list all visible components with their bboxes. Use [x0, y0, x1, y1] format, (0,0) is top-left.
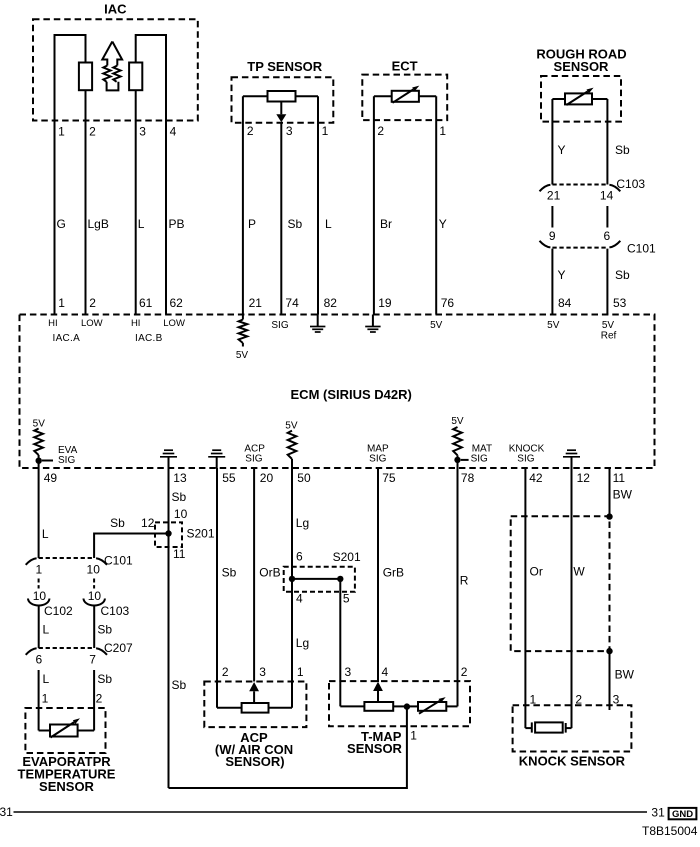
wire segment C103-14 to C101-6	[606, 206, 608, 228]
Rough road sensor title	[536, 46, 626, 74]
svg-text:Lg: Lg	[296, 516, 309, 530]
T-MAP title	[347, 729, 403, 756]
wire G label	[57, 217, 66, 231]
svg-text:Sb: Sb	[288, 217, 303, 231]
ECM title	[291, 387, 412, 402]
wire PB label	[169, 217, 185, 231]
svg-text:5V: 5V	[236, 350, 249, 361]
S201 label (right)	[333, 550, 361, 564]
svg-text:C101: C101	[104, 554, 133, 568]
ECM ground (pin 13)	[160, 450, 177, 468]
C207 label	[104, 641, 133, 655]
svg-text:SIG: SIG	[271, 320, 288, 331]
ECM 5V label (EVA pull-up)	[33, 419, 46, 430]
svg-text:31: 31	[651, 805, 665, 819]
TP wiper arrow	[276, 102, 286, 123]
ECM ground (pin 82)	[310, 315, 325, 333]
wire Sb (S201 11 to ACP area)	[168, 534, 170, 789]
wire P label	[248, 217, 256, 231]
svg-text:5V: 5V	[451, 416, 464, 427]
svg-text:4: 4	[170, 125, 177, 139]
MAT SIG junction dot	[454, 457, 460, 463]
wire BW (ECM 11 to shield)	[609, 468, 611, 517]
wire Y (RRS to C103 21)	[551, 99, 553, 185]
T-MAP wiper arrow (pin 4)	[373, 682, 383, 702]
TP sensor title	[247, 59, 323, 74]
C101 pin 6 label	[604, 229, 611, 243]
svg-text:31: 31	[0, 805, 13, 819]
wire (T-MAP 1 ground run)	[169, 706, 407, 788]
svg-text:Lg: Lg	[296, 636, 309, 650]
svg-text:4: 4	[382, 665, 389, 679]
svg-text:HI: HI	[48, 318, 58, 329]
S201 jumper wire	[292, 578, 340, 580]
S201 pin 11 label	[173, 547, 186, 561]
svg-text:Sb: Sb	[97, 672, 112, 686]
ECM IAC.A label	[52, 333, 80, 344]
wire Sb label	[97, 623, 112, 637]
TP pin 1 label	[322, 124, 329, 138]
wire L (ECM 49 to C101 1)	[38, 468, 40, 558]
ACP pin 3 label	[259, 665, 266, 679]
wire GrB label	[383, 566, 404, 580]
connector C207	[26, 648, 107, 655]
ECT pin 2 label	[377, 124, 384, 138]
ECM SIG label (pin 74)	[271, 320, 288, 331]
ECT title	[392, 58, 418, 73]
svg-text:Y: Y	[558, 268, 566, 282]
svg-text:LOW: LOW	[81, 318, 103, 329]
wire L label	[138, 217, 145, 231]
connector C103 terminal	[84, 599, 105, 606]
EVA SIG tick and label	[42, 445, 78, 466]
svg-text:L: L	[325, 217, 332, 231]
svg-text:75: 75	[382, 471, 396, 485]
svg-text:PB: PB	[169, 217, 185, 231]
ECM pin 76 label	[441, 296, 455, 310]
ECM pin 42 label	[529, 471, 543, 485]
svg-text:ECM (SIRIUS D42R): ECM (SIRIUS D42R)	[291, 387, 412, 402]
svg-text:SIG: SIG	[58, 455, 75, 466]
wire Lg label	[296, 636, 309, 650]
C101 label (left)	[104, 554, 133, 568]
S201 junction dot (pin 4)	[289, 576, 295, 582]
ECM pin 78 label	[461, 471, 475, 485]
ECM HI label (pin 1)	[48, 318, 58, 329]
wire Y label	[439, 217, 447, 231]
IAC coil B (pins 3-4)	[129, 35, 166, 121]
svg-text:S201: S201	[187, 527, 215, 541]
ECM pin 82 label	[324, 296, 338, 310]
svg-text:1: 1	[42, 692, 49, 706]
wire OrB label	[259, 566, 280, 580]
wire Sb (C101 6 to ECM 53)	[606, 249, 608, 315]
svg-text:21: 21	[547, 188, 561, 202]
ECM pin 55 label	[222, 471, 236, 485]
C101 pin 1 label	[36, 563, 43, 577]
Evaporator temperature sensor box	[25, 708, 105, 753]
svg-text:7: 7	[89, 652, 96, 666]
wire Br (ECT 2 to ECM 19)	[373, 96, 375, 314]
wire Sb label (S201 to C101)	[110, 516, 125, 530]
svg-text:GND: GND	[672, 809, 693, 820]
Knock sensor title	[519, 753, 626, 768]
IAC valve pintle symbol	[102, 42, 122, 91]
svg-text:L: L	[43, 623, 50, 637]
svg-text:SENSOR: SENSOR	[39, 779, 95, 794]
TP pin 2 label	[247, 124, 254, 138]
svg-text:53: 53	[613, 296, 627, 310]
svg-text:ECT: ECT	[392, 58, 418, 73]
wire (S201 5 to T-MAP 3)	[339, 579, 341, 707]
C103 pin 14 label	[600, 188, 614, 202]
svg-text:2: 2	[461, 665, 468, 679]
ECM pin 62 label	[170, 296, 184, 310]
svg-text:Sb: Sb	[222, 566, 237, 580]
EVAP pin 1 label	[42, 692, 49, 706]
wire PB (IAC 4 to ECM 62)	[165, 121, 167, 315]
svg-text:3: 3	[345, 665, 352, 679]
TP pin 3 label	[286, 124, 293, 138]
wire P (TP 2 to ECM 21)	[242, 96, 244, 314]
svg-text:C103: C103	[101, 604, 130, 618]
wire Sb label (long run)	[172, 678, 187, 692]
svg-text:BW: BW	[613, 487, 633, 501]
KNOCK pin 3 label	[613, 693, 620, 707]
Rough road sensor element	[552, 88, 607, 105]
TP sensor connector box	[232, 77, 334, 123]
ACP pin 1 label	[297, 665, 304, 679]
svg-text:SIG: SIG	[471, 454, 488, 465]
wire Y (C101 9 to ECM 84)	[551, 249, 553, 315]
svg-text:1: 1	[410, 729, 417, 743]
svg-text:78: 78	[461, 471, 475, 485]
splice S201 box (right)	[284, 567, 355, 592]
connector C101 (left)	[26, 558, 107, 565]
svg-text:C207: C207	[104, 641, 133, 655]
IAC pin 1 label	[58, 125, 65, 139]
svg-text:LgB: LgB	[88, 217, 109, 231]
IAC pin 4 label	[170, 125, 177, 139]
wire Y label	[558, 143, 566, 157]
wire Lg (S201 4 to ACP 1)	[291, 579, 293, 708]
svg-text:1: 1	[322, 124, 329, 138]
wire L label	[43, 623, 50, 637]
KNOCK pin 2 label	[575, 693, 582, 707]
wire Sb (ECM 13 to S201 10)	[168, 468, 170, 534]
ground bus node 31 (left)	[0, 805, 13, 819]
T-MAP pin 1 label	[410, 729, 417, 743]
ECT thermistor	[374, 86, 436, 103]
wire Sb (ECM 55 to ACP 2)	[216, 468, 218, 708]
IAC pin 2 label	[89, 125, 96, 139]
wire L label	[325, 217, 332, 231]
ECM internal pull-up resistor (pin 21)	[239, 315, 248, 347]
ECM pin 12 label	[577, 471, 591, 485]
Evaporator temperature sensor title	[18, 754, 116, 794]
ECM pin 20 label	[260, 471, 274, 485]
svg-text:11: 11	[613, 471, 626, 485]
C103 label	[101, 604, 130, 618]
svg-text:1: 1	[36, 563, 43, 577]
wire Lg label	[296, 516, 309, 530]
shield junction dot (top)	[606, 513, 612, 519]
C207 pin 6 label	[35, 652, 42, 666]
svg-text:IAC: IAC	[104, 1, 127, 16]
svg-text:L: L	[42, 527, 49, 541]
C207 pin 7 label	[89, 652, 96, 666]
svg-text:Y: Y	[439, 217, 447, 231]
ECM 5V Ref label (pin 53)	[601, 320, 617, 342]
wire GrB (ECM 75 to T-MAP 4)	[377, 468, 379, 682]
ECM module box	[20, 315, 655, 469]
svg-text:3: 3	[139, 125, 146, 139]
ECM LOW label (pin 62)	[163, 318, 185, 329]
T-MAP junction dot	[404, 703, 410, 709]
ECM pin 50 label	[297, 471, 311, 485]
GND box	[669, 808, 697, 820]
svg-text:4: 4	[296, 591, 303, 605]
wire Y label	[558, 268, 566, 282]
ACP sensor box	[204, 682, 306, 728]
S201 junction dot (pin 5)	[337, 576, 343, 582]
svg-text:20: 20	[260, 471, 274, 485]
C101 pin 9 label	[549, 229, 556, 243]
wire L (TP 1 to ECM 82)	[317, 96, 319, 314]
svg-text:84: 84	[558, 296, 572, 310]
svg-text:W: W	[573, 565, 585, 579]
ECM LOW label (pin 2)	[81, 318, 103, 329]
wire segment C103-21 to C101-9	[551, 206, 553, 228]
svg-text:SENSOR: SENSOR	[347, 741, 403, 756]
svg-text:2: 2	[96, 692, 103, 706]
diagram number T8B15004	[642, 824, 698, 838]
ECM internal pull-up resistor (EVA SIG)	[34, 429, 43, 469]
svg-text:IAC.B: IAC.B	[135, 333, 163, 344]
svg-text:Ref: Ref	[601, 331, 617, 342]
ECM pin 61 label	[139, 296, 153, 310]
svg-text:3: 3	[259, 665, 266, 679]
wire OrB (ECM 20 to ACP 3)	[253, 468, 255, 682]
ECM internal pull-up resistor (pin 50)	[288, 431, 297, 468]
wire BW label (pin 11)	[613, 487, 633, 501]
S201 pin 12 label	[141, 516, 155, 530]
ECT sensor connector box	[362, 75, 447, 121]
svg-text:OrB: OrB	[259, 566, 280, 580]
wire Sb label	[288, 217, 303, 231]
ECM internal pull-up resistor (MAT SIG)	[453, 427, 462, 468]
Knock sensor box	[513, 705, 632, 751]
ACP title	[215, 730, 293, 769]
svg-text:9: 9	[549, 229, 556, 243]
wire Sb label	[615, 268, 630, 282]
ECM pin 2 label	[89, 296, 96, 310]
wire L (IAC 3 to ECM 61)	[135, 121, 137, 315]
ECM pin 49 label	[44, 471, 58, 485]
svg-text:2: 2	[222, 665, 229, 679]
ECM pin 19 label	[378, 296, 392, 310]
dashed wire stub (C101 1 to C102)	[38, 579, 40, 589]
svg-text:2: 2	[89, 296, 96, 310]
wire Or (ECM 42 to KNOCK 1)	[524, 468, 526, 728]
svg-text:C103: C103	[616, 177, 645, 191]
C103 pin 10 label	[88, 589, 102, 603]
svg-text:SENSOR): SENSOR)	[225, 754, 284, 769]
svg-text:10: 10	[88, 589, 102, 603]
svg-text:Sb: Sb	[172, 490, 187, 504]
svg-text:5V: 5V	[33, 419, 46, 430]
svg-text:Y: Y	[558, 143, 566, 157]
Rough road sensor connector box	[541, 76, 621, 122]
ECM 5V label (pin 84)	[547, 320, 560, 331]
svg-text:Sb: Sb	[615, 143, 630, 157]
svg-text:6: 6	[296, 550, 303, 564]
svg-text:G: G	[57, 217, 66, 231]
svg-text:S201: S201	[333, 550, 361, 564]
S201 label (left)	[187, 527, 215, 541]
svg-text:5V: 5V	[430, 320, 443, 331]
wire R label	[460, 574, 469, 588]
svg-text:6: 6	[604, 229, 611, 243]
dashed wire stub (C101 10 to C103)	[93, 579, 95, 589]
svg-text:LOW: LOW	[163, 318, 185, 329]
MAT SIG tick and label	[461, 443, 492, 464]
svg-text:2: 2	[89, 125, 96, 139]
wire Lg (ECM 50 to S201 6)	[291, 468, 293, 579]
svg-text:19: 19	[378, 296, 392, 310]
ACP potentiometer	[217, 703, 292, 713]
svg-text:Sb: Sb	[110, 516, 125, 530]
wire L (C207 6 to EVAP 1)	[38, 670, 40, 731]
svg-text:KNOCK SENSOR: KNOCK SENSOR	[519, 753, 626, 768]
wire LgB (IAC 2 to ECM 2)	[85, 121, 87, 315]
svg-text:3: 3	[286, 124, 293, 138]
Knock piezo element	[525, 722, 571, 732]
ECM ground (pin 12)	[563, 450, 580, 468]
ECT pin 1 label	[439, 124, 446, 138]
wire Sb label	[615, 143, 630, 157]
C101 pin 10 label	[87, 563, 101, 577]
svg-text:12: 12	[141, 516, 155, 530]
S201 pin 5 label	[343, 591, 350, 605]
IAC pin 3 label	[139, 125, 146, 139]
svg-text:49: 49	[44, 471, 58, 485]
wire BW (shield to KNOCK 3)	[609, 651, 611, 710]
svg-text:C102: C102	[44, 604, 73, 618]
svg-text:5: 5	[343, 591, 350, 605]
svg-text:Sb: Sb	[615, 268, 630, 282]
svg-text:SIG: SIG	[369, 454, 386, 465]
svg-text:5V: 5V	[547, 320, 560, 331]
IAC title	[104, 1, 127, 16]
svg-text:IAC.A: IAC.A	[52, 333, 80, 344]
ECM pin 53 label	[613, 296, 627, 310]
svg-text:SIG: SIG	[517, 454, 534, 465]
wire BW label (lower)	[615, 668, 635, 682]
S201 pin 4 label	[296, 591, 303, 605]
wire LgB label	[88, 217, 109, 231]
svg-text:10: 10	[174, 507, 188, 521]
ECM ground (pin 19)	[365, 315, 380, 333]
ECM 5V label (ACP pull-up)	[285, 420, 298, 431]
wire L (C102 to C207 6)	[38, 606, 40, 649]
svg-text:BW: BW	[615, 668, 635, 682]
svg-text:SIG: SIG	[245, 454, 262, 465]
ground bus node 31 (right)	[651, 805, 665, 819]
svg-text:14: 14	[600, 188, 614, 202]
ECM ground (pin 55)	[208, 450, 225, 468]
svg-text:82: 82	[324, 296, 338, 310]
ACP wiper arrow (pin 3)	[249, 682, 259, 703]
svg-text:C101: C101	[627, 242, 656, 256]
C101 label	[627, 242, 656, 256]
ECM 5V label (MAT pull-up)	[451, 416, 464, 427]
C103 label	[616, 177, 645, 191]
svg-text:10: 10	[33, 589, 47, 603]
ECM pin 84 label	[558, 296, 572, 310]
ECM pin 13 label	[173, 471, 187, 485]
T-MAP sensor box	[329, 681, 470, 726]
svg-text:11: 11	[173, 547, 186, 561]
ground bus wire 31	[14, 811, 648, 813]
svg-text:Or: Or	[530, 565, 543, 579]
wire L label	[42, 527, 49, 541]
svg-text:Br: Br	[380, 217, 392, 231]
svg-text:55: 55	[222, 471, 236, 485]
ECM 5V label (pin 76)	[430, 320, 443, 331]
C103 pin 21 label	[547, 188, 561, 202]
connector C103 (RRS)	[540, 185, 621, 192]
EVA SIG junction dot	[36, 458, 42, 464]
svg-text:1: 1	[439, 124, 446, 138]
wire Sb label	[222, 566, 237, 580]
S201 junction dot (left)	[165, 530, 171, 536]
T-MAP pin 2 label	[461, 665, 468, 679]
svg-text:HI: HI	[131, 318, 141, 329]
svg-text:P: P	[248, 217, 256, 231]
wire Sb (RRS to C103 14)	[606, 99, 608, 185]
ECM IAC.B label	[135, 333, 163, 344]
wire Br label	[380, 217, 392, 231]
svg-text:42: 42	[529, 471, 543, 485]
svg-text:61: 61	[139, 296, 153, 310]
connector C101 (RRS)	[540, 241, 621, 248]
svg-text:1: 1	[297, 665, 304, 679]
wire R (ECM 78 to T-MAP 2)	[457, 468, 459, 706]
wire Sb (C103 to C207 7)	[93, 606, 95, 649]
IAC solenoid connector box	[33, 19, 198, 120]
ECM KNOCK SIG label	[509, 443, 545, 464]
T-MAP MAT thermistor	[407, 697, 458, 714]
svg-text:5V: 5V	[285, 420, 298, 431]
svg-text:SENSOR: SENSOR	[554, 59, 610, 74]
svg-text:6: 6	[35, 652, 42, 666]
svg-text:R: R	[460, 574, 469, 588]
wire W (ECM 12 to KNOCK 2)	[571, 468, 573, 728]
svg-text:1: 1	[58, 296, 65, 310]
T-MAP pin 4 label	[382, 665, 389, 679]
connector C102 terminal	[28, 599, 49, 606]
svg-text:76: 76	[441, 296, 455, 310]
svg-text:74: 74	[285, 296, 299, 310]
svg-text:5V: 5V	[602, 320, 615, 331]
svg-text:Sb: Sb	[172, 678, 187, 692]
shield junction dot (bottom)	[606, 648, 612, 654]
ECM pin 75 label	[382, 471, 396, 485]
wire Y (ECT 1 to ECM 76)	[435, 96, 437, 314]
svg-text:2: 2	[247, 124, 254, 138]
C102 label	[44, 604, 73, 618]
